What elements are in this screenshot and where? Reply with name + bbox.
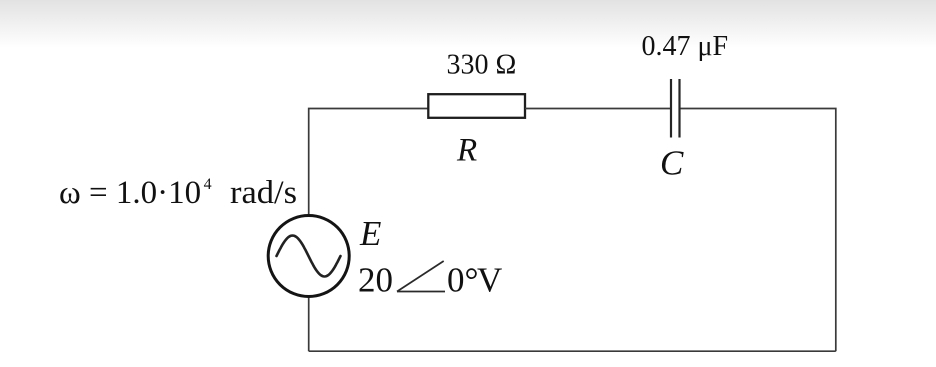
label omega = 1.0e4 rad/s xyxy=(59,175,212,211)
label 0.47 uF xyxy=(642,31,729,62)
svg-text:ω = 1.0·104: ω = 1.0·104 xyxy=(59,175,212,211)
label 20 magnitude xyxy=(358,261,393,300)
label rad/s xyxy=(230,175,297,211)
wire capacitor to right side and down xyxy=(681,109,836,352)
angle symbol diagonal line xyxy=(397,261,444,292)
svg-text:0°V: 0°V xyxy=(447,261,502,300)
wire bottom xyxy=(309,350,836,352)
label C xyxy=(660,144,684,183)
AC source sine wave xyxy=(277,236,341,277)
svg-text:rad/s: rad/s xyxy=(230,175,297,211)
label E xyxy=(359,214,381,253)
svg-text:C: C xyxy=(660,144,684,183)
svg-text:0.47 μF: 0.47 μF xyxy=(642,31,729,62)
angle symbol horizontal line xyxy=(397,291,445,293)
svg-text:20: 20 xyxy=(358,261,393,300)
resistor R1 body xyxy=(428,94,525,118)
svg-text:R: R xyxy=(456,133,477,169)
label 330 ohm xyxy=(447,50,517,81)
wire resistor to capacitor xyxy=(525,108,670,110)
wire top-left: left corner to resistor xyxy=(309,109,429,215)
svg-text:330 Ω: 330 Ω xyxy=(447,50,517,81)
label R xyxy=(456,133,477,169)
capacitor C1 right plate xyxy=(678,79,680,138)
AC source E circle xyxy=(268,216,349,297)
svg-text:E: E xyxy=(359,214,381,253)
wire source to bottom xyxy=(308,296,310,351)
label 0 deg V xyxy=(447,261,502,300)
capacitor C1 left plate xyxy=(670,79,672,138)
